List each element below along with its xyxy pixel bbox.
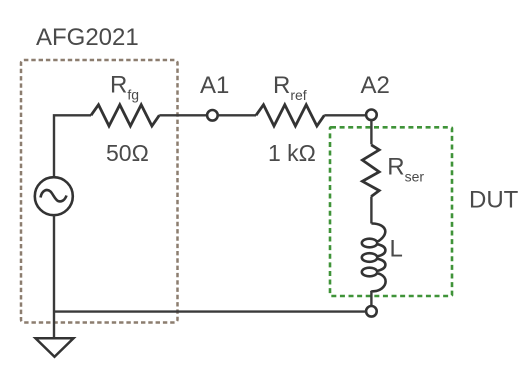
svg-text:L: L <box>390 236 403 263</box>
svg-text:AFG2021: AFG2021 <box>36 24 139 51</box>
bottom rail wire <box>54 310 366 312</box>
wire: source top to R_fg (corner) <box>54 115 91 177</box>
resistor R_ref <box>256 105 324 126</box>
wire: node A1 to R_ref <box>218 114 256 116</box>
AC source V1 <box>35 177 73 215</box>
sine symbol <box>41 190 67 201</box>
bottom node <box>366 306 377 317</box>
ground <box>36 338 74 357</box>
wire: inductor to bottom node <box>370 291 372 306</box>
wire: R_ser to inductor L <box>370 197 372 224</box>
svg-text:A1: A1 <box>200 72 229 99</box>
node A1 <box>207 110 218 121</box>
wire: R_fg to node A1 <box>159 114 207 116</box>
svg-text:A2: A2 <box>361 72 390 99</box>
DUT enclosure (dashed box) <box>330 127 452 296</box>
wire: R_ref to node A2 <box>324 114 366 116</box>
svg-text:50Ω: 50Ω <box>106 140 149 166</box>
svg-text:DUT: DUT <box>469 187 519 214</box>
node A2 <box>366 110 377 121</box>
wire: source bottom down to ground <box>53 215 55 338</box>
svg-text:1 kΩ: 1 kΩ <box>268 140 316 166</box>
inductor L <box>362 223 386 292</box>
wire: node A2 down to R_ser <box>370 120 372 144</box>
resistor R_fg <box>91 105 159 126</box>
resistor R_ser (vertical) <box>362 145 379 197</box>
AFG2021 enclosure (dashed box) <box>21 60 178 323</box>
